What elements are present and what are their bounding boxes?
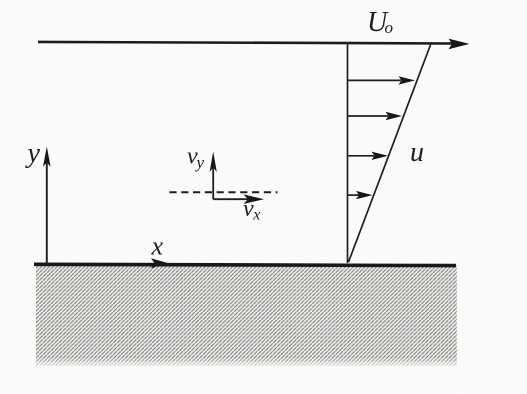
profile slant line u [349, 44, 432, 263]
velocity profile baseline (vertical) [347, 43, 349, 263]
v_x axis (horizontal mini arrow) [213, 198, 248, 200]
profile arrow 1 [348, 79, 402, 81]
profile arrow 3 [348, 155, 375, 157]
v_y axis (vertical mini arrow) [212, 158, 214, 199]
moving top plate line [38, 42, 452, 44]
profile arrow 4 [348, 194, 360, 196]
wall (hatched block) [36, 265, 457, 366]
wall surface line [34, 264, 456, 265]
profile arrow 2 [348, 115, 389, 117]
x arrowhead on wall [151, 258, 169, 268]
y-axis [46, 153, 48, 264]
U_o arrowhead [449, 39, 470, 50]
dashed centerline [169, 191, 277, 193]
